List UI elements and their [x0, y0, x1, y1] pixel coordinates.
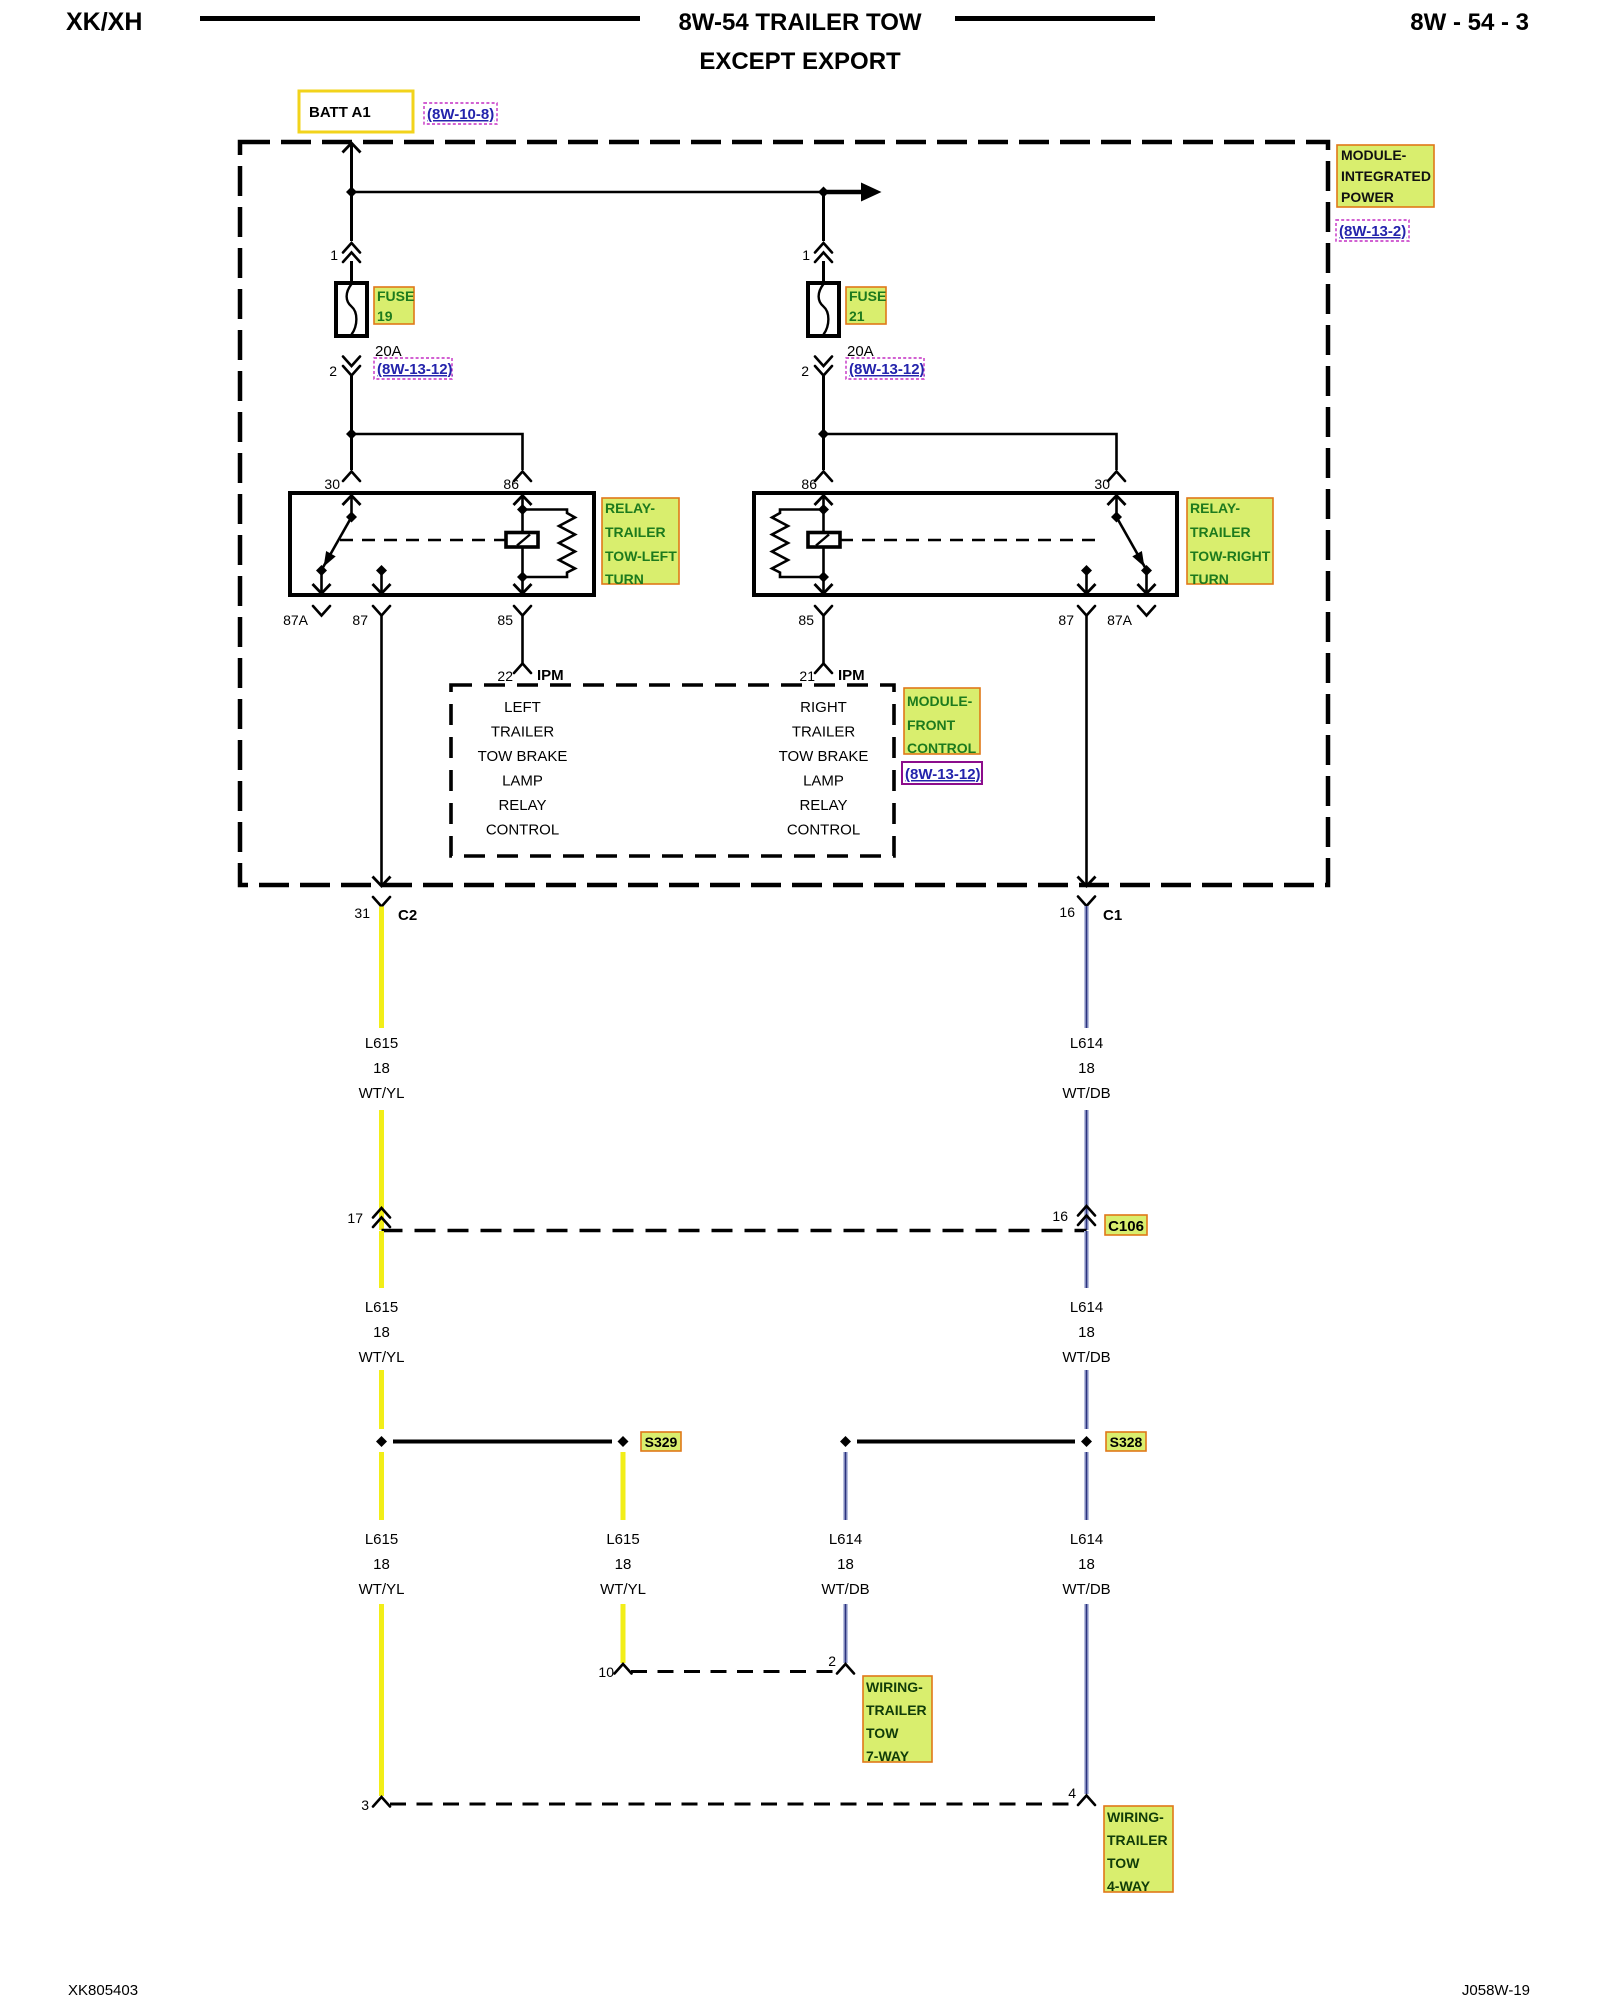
svg-text:IPM: IPM	[838, 667, 865, 684]
svg-text:4-WAY: 4-WAY	[1107, 1878, 1151, 1894]
wire 85-left to IPM pin 22	[521, 616, 524, 664]
link 8W-13-2	[1336, 220, 1409, 241]
svg-text:WT/YL: WT/YL	[359, 1581, 405, 1598]
pin 87 (right relay)	[1058, 606, 1095, 628]
svg-text:19: 19	[377, 308, 393, 324]
node branch to 86	[346, 429, 357, 440]
connector C106 dashed body	[382, 1229, 1087, 1233]
svg-text:87: 87	[352, 612, 368, 628]
svg-text:C106: C106	[1108, 1218, 1144, 1235]
wire L614 (C106 to S328)	[1084, 1231, 1089, 1429]
svg-text:18: 18	[615, 1556, 632, 1573]
svg-text:MODULE-: MODULE-	[907, 693, 973, 709]
svg-text:TOW: TOW	[866, 1725, 899, 1741]
label WIRING-TRAILER TOW 4-WAY	[1104, 1806, 1173, 1894]
pin 87A (right relay)	[1107, 606, 1155, 628]
svg-text:86: 86	[801, 476, 817, 492]
coil actuation dashed link (right)	[840, 539, 1100, 542]
label S329	[641, 1432, 681, 1451]
connector trailer tow 7-way pin 2	[828, 1653, 854, 1674]
svg-text:1: 1	[802, 247, 810, 263]
svg-text:XK805403: XK805403	[68, 1982, 138, 1999]
svg-text:18: 18	[373, 1556, 390, 1573]
svg-text:18: 18	[373, 1324, 390, 1341]
svg-text:4: 4	[1068, 1785, 1076, 1801]
pin 85 (right relay)	[798, 606, 832, 628]
wire from BATT A1 down (left feed)	[343, 143, 361, 241]
connector trailer tow 4-way pin 4	[1068, 1785, 1095, 1805]
node: right trailer tow brake lamp relay control	[779, 699, 869, 839]
svg-text:TRAILER: TRAILER	[866, 1702, 927, 1718]
pin 87A (left relay)	[283, 606, 330, 628]
wire bus to right fuse	[352, 191, 824, 194]
connector C1 pin 16	[1059, 897, 1122, 925]
svg-text:TOW: TOW	[1107, 1855, 1140, 1871]
node junction at battery feed	[346, 187, 357, 198]
svg-text:TRAILER: TRAILER	[792, 724, 856, 741]
svg-text:18: 18	[373, 1060, 390, 1077]
svg-text:L614: L614	[1070, 1035, 1103, 1052]
svg-text:MODULE-: MODULE-	[1341, 147, 1407, 163]
svg-text:TRAILER: TRAILER	[1107, 1832, 1168, 1848]
resistor (right relay shunt)	[772, 510, 824, 578]
svg-text:WT/YL: WT/YL	[359, 1085, 405, 1102]
connector trailer tow 4-way pin 3	[361, 1797, 390, 1813]
svg-text:RELAY: RELAY	[498, 797, 546, 814]
relay switch arm (30 to 87A)	[313, 493, 361, 594]
svg-text:TOW-RIGHT: TOW-RIGHT	[1190, 548, 1271, 564]
pin 22 IPM	[497, 664, 563, 685]
header	[66, 8, 1529, 75]
svg-text:(8W-13-12): (8W-13-12)	[849, 361, 925, 378]
svg-text:8W-54 TRAILER TOW: 8W-54 TRAILER TOW	[678, 9, 921, 36]
svg-text:2: 2	[828, 1653, 836, 1669]
svg-text:S328: S328	[1110, 1434, 1143, 1450]
connector 4-way dashed body	[390, 1803, 1078, 1806]
svg-text:WT/YL: WT/YL	[600, 1581, 646, 1598]
footer	[68, 1982, 1530, 1999]
svg-text:L615: L615	[365, 1531, 398, 1548]
connector 7-way dashed body	[631, 1670, 838, 1673]
wire L615 (S329 right leg down)	[621, 1452, 626, 1663]
svg-text:L614: L614	[1070, 1299, 1103, 1316]
svg-text:LAMP: LAMP	[803, 773, 844, 790]
svg-text:WT/DB: WT/DB	[1062, 1581, 1110, 1598]
svg-text:POWER: POWER	[1341, 189, 1394, 205]
resistor (left relay shunt)	[523, 510, 576, 578]
node: left trailer tow brake lamp relay control	[478, 699, 568, 839]
wire branch to right relay 30	[824, 434, 1117, 470]
svg-text:J058W-19: J058W-19	[1462, 1982, 1530, 1999]
wire label L615	[600, 1531, 646, 1598]
pin 21 IPM	[799, 664, 864, 685]
svg-text:WIRING-: WIRING-	[866, 1679, 923, 1695]
svg-text:XK/XH: XK/XH	[66, 8, 142, 36]
label MODULE-FRONT CONTROL	[904, 688, 980, 756]
svg-text:C1: C1	[1103, 907, 1122, 924]
battery feed box BATT A1	[299, 91, 413, 132]
svg-text:RIGHT: RIGHT	[800, 699, 847, 716]
label RELAY-TRAILER TOW-RIGHT TURN	[1187, 498, 1273, 587]
relay switch arm (30 to 87A, right)	[1108, 493, 1156, 594]
wire label L614	[1062, 1299, 1110, 1366]
label RELAY-TRAILER TOW-LEFT TURN	[602, 498, 679, 587]
svg-text:18: 18	[837, 1556, 854, 1573]
pin 30 (right relay)	[1094, 472, 1125, 493]
svg-text:18: 18	[1078, 1060, 1095, 1077]
wire arrow continuing right	[824, 183, 882, 202]
wire label L614	[1062, 1035, 1110, 1102]
fuse F21	[808, 283, 839, 336]
svg-text:2: 2	[801, 363, 809, 379]
svg-text:S329: S329	[645, 1434, 678, 1450]
svg-text:L614: L614	[1070, 1531, 1103, 1548]
wire	[350, 261, 353, 283]
module-front control inner dashed box	[451, 685, 894, 856]
svg-text:L614: L614	[829, 1531, 862, 1548]
svg-text:(8W-10-8): (8W-10-8)	[427, 106, 494, 123]
svg-text:FUSE: FUSE	[377, 288, 414, 304]
wire L614 (S328 right leg down)	[1084, 1452, 1089, 1794]
connector C106 pin 17	[347, 1208, 390, 1227]
relay K-left trailer tow left turn: box	[290, 493, 594, 595]
svg-text:L615: L615	[365, 1299, 398, 1316]
svg-text:2: 2	[329, 363, 337, 379]
svg-text:LEFT: LEFT	[504, 699, 541, 716]
pin 85 (left relay)	[497, 606, 531, 628]
svg-text:LAMP: LAMP	[502, 773, 543, 790]
svg-text:FUSE: FUSE	[849, 288, 886, 304]
svg-text:22: 22	[497, 668, 513, 684]
coil actuation dashed link (left)	[340, 539, 506, 542]
svg-text:C2: C2	[398, 907, 417, 924]
node branch to 30 (right)	[818, 429, 829, 440]
svg-text:8W - 54 - 3: 8W - 54 - 3	[1410, 9, 1529, 36]
svg-text:87A: 87A	[1107, 612, 1133, 628]
svg-text:18: 18	[1078, 1556, 1095, 1573]
label S328	[1106, 1432, 1146, 1451]
wire fuse19 to relay	[350, 376, 353, 470]
wire from BATT bus down to fuse 21	[822, 192, 825, 241]
relay coil branch 86-85	[514, 493, 532, 594]
pin 86 (left relay)	[503, 472, 531, 493]
svg-text:10: 10	[598, 1664, 614, 1680]
label C106	[1105, 1215, 1147, 1235]
wire relay-87-right down to C1	[1078, 616, 1096, 887]
wire label L615	[359, 1299, 405, 1366]
svg-text:WIRING-: WIRING-	[1107, 1809, 1164, 1825]
svg-text:TURN: TURN	[1190, 571, 1229, 587]
svg-text:16: 16	[1052, 1208, 1068, 1224]
svg-text:TRAILER: TRAILER	[605, 524, 666, 540]
svg-text:L615: L615	[365, 1035, 398, 1052]
svg-text:21: 21	[799, 668, 815, 684]
fuse F19	[336, 283, 367, 336]
wire L615 18 WT/YL (C2 to C106)	[379, 907, 384, 1231]
label WIRING-TRAILER TOW 7-WAY	[863, 1676, 932, 1764]
svg-text:TURN: TURN	[605, 571, 644, 587]
svg-text:TOW BRAKE: TOW BRAKE	[779, 748, 869, 765]
splice S328	[840, 1436, 1092, 1447]
svg-text:87A: 87A	[283, 612, 309, 628]
svg-text:85: 85	[497, 612, 513, 628]
svg-text:RELAY: RELAY	[799, 797, 847, 814]
svg-text:(8W-13-12): (8W-13-12)	[905, 766, 981, 783]
link 8W-13-12 (front control)	[902, 762, 982, 784]
svg-text:WT/DB: WT/DB	[1062, 1349, 1110, 1366]
svg-text:87: 87	[1058, 612, 1074, 628]
wire L615 (S329 left leg down)	[379, 1452, 384, 1796]
wire L614 (S328 left leg down)	[843, 1452, 848, 1663]
wire	[822, 261, 825, 283]
relay K-right trailer tow right turn: box	[754, 493, 1177, 595]
wire label L615	[359, 1035, 405, 1102]
svg-text:85: 85	[798, 612, 814, 628]
svg-text:31: 31	[354, 905, 370, 921]
svg-text:1: 1	[330, 247, 338, 263]
svg-text:18: 18	[1078, 1324, 1095, 1341]
pin 30 (left relay)	[324, 472, 360, 493]
svg-text:WT/YL: WT/YL	[359, 1349, 405, 1366]
svg-text:30: 30	[324, 476, 340, 492]
svg-text:TOW BRAKE: TOW BRAKE	[478, 748, 568, 765]
wire L615 (C106 to S329)	[379, 1231, 384, 1429]
relay contact 87	[373, 565, 391, 594]
relay coil (right)	[808, 533, 840, 548]
label MODULE-INTEGRATED POWER	[1337, 145, 1434, 207]
svg-text:INTEGRATED: INTEGRATED	[1341, 168, 1431, 184]
pin 1 connector (fuse 21)	[802, 243, 832, 263]
svg-text:TRAILER: TRAILER	[491, 724, 555, 741]
svg-text:TRAILER: TRAILER	[1190, 524, 1251, 540]
wire label L615	[359, 1531, 405, 1598]
relay coil (left)	[506, 533, 538, 548]
label FUSE 21	[846, 287, 886, 324]
pin 2 connector (fuse 19)	[329, 357, 360, 380]
wire 85-right to IPM pin 21	[822, 616, 825, 664]
label FUSE 19	[374, 287, 414, 324]
svg-text:3: 3	[361, 1797, 369, 1813]
splice S329	[376, 1436, 629, 1447]
svg-text:17: 17	[347, 1210, 363, 1226]
pin 87 (left relay)	[352, 606, 390, 628]
connector trailer tow 7-way pin 10	[598, 1664, 631, 1680]
wire relay-87-left down to C2	[373, 616, 391, 887]
svg-text:L615: L615	[606, 1531, 639, 1548]
svg-text:7-WAY: 7-WAY	[866, 1748, 910, 1764]
svg-text:WT/DB: WT/DB	[1062, 1085, 1110, 1102]
wire label L614	[1062, 1531, 1110, 1598]
svg-text:BATT A1: BATT A1	[309, 104, 371, 121]
pin 2 connector (fuse 21)	[801, 357, 832, 380]
wire L614 18 WT/DB (C1 to C106)	[1084, 906, 1089, 1230]
svg-text:FRONT: FRONT	[907, 717, 956, 733]
pin 86 (right relay)	[801, 472, 832, 493]
wire branch to relay coil 86	[352, 434, 523, 470]
svg-text:16: 16	[1059, 904, 1075, 920]
svg-text:WT/DB: WT/DB	[821, 1581, 869, 1598]
wire label L614	[821, 1531, 869, 1598]
svg-text:21: 21	[849, 308, 865, 324]
link 8W-13-12 (left)	[374, 358, 453, 379]
wire fuse21 to relay	[822, 376, 825, 470]
svg-text:30: 30	[1094, 476, 1110, 492]
svg-text:(8W-13-12): (8W-13-12)	[377, 361, 453, 378]
svg-text:EXCEPT EXPORT: EXCEPT EXPORT	[699, 48, 901, 75]
link 8W-13-12 (right)	[846, 358, 925, 379]
svg-text:CONTROL: CONTROL	[787, 822, 860, 839]
svg-text:CONTROL: CONTROL	[907, 740, 977, 756]
svg-text:RELAY-: RELAY-	[1190, 500, 1240, 516]
module-integrated power outer dashed box	[240, 142, 1328, 885]
node junction right feed	[818, 187, 829, 198]
relay coil branch 86-85 (right)	[815, 493, 833, 594]
relay contact 87 (right)	[1078, 565, 1096, 594]
svg-text:TOW-LEFT: TOW-LEFT	[605, 548, 677, 564]
svg-text:IPM: IPM	[537, 667, 564, 684]
svg-text:(8W-13-2): (8W-13-2)	[1339, 223, 1406, 240]
pin 1 connector (fuse 19)	[330, 243, 360, 263]
link 8W-10-8	[424, 103, 497, 124]
connector C2 pin 31	[354, 897, 417, 924]
svg-text:RELAY-: RELAY-	[605, 500, 655, 516]
connector C106 pin 16	[1052, 1206, 1095, 1225]
svg-text:CONTROL: CONTROL	[486, 822, 559, 839]
